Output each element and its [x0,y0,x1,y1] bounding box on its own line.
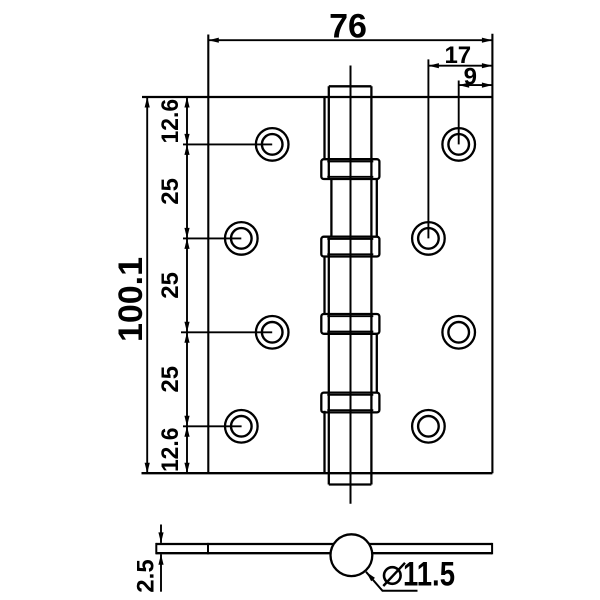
ext line row4 [183,425,242,427]
arrow seg r4 down [184,426,189,437]
arrow 2.5 up [158,554,163,565]
arrow seg r4 up [184,416,189,427]
dim line 76 [208,39,492,41]
ext line row1 [183,143,272,145]
barrel top cap [329,85,372,87]
arrow 9 right [482,83,493,88]
arrow seg r2 down [184,238,189,249]
bearing band 3 [321,314,379,334]
svg-text:12.6: 12.6 [157,99,184,144]
barrel right inner line [370,86,372,484]
hole row3 right [442,316,475,349]
arrow 17 right [482,63,493,68]
plate left edge [207,35,209,474]
dim line 17 [428,65,492,67]
ext line 17 [427,59,429,238]
side view bar top [156,543,492,545]
arrow seg r1 down [184,144,189,155]
plate top edge [142,96,492,98]
plate bottom edge [142,472,493,474]
arrow seg bottom [184,463,189,474]
dim 2.5 upper [160,525,162,543]
leader line dia [366,572,418,591]
hole row1 left [256,128,289,161]
side view bar bottom [156,552,492,554]
side bar joint tick [207,543,209,554]
barrel bottom cap [329,483,372,485]
dim line 100.1 [146,97,148,473]
barrel left inner line K2 [330,179,332,237]
dim 2.5 lower [160,554,162,591]
barrel left inner line K1 [328,86,330,179]
svg-text:2.5: 2.5 [133,559,160,592]
arrow leader dia [366,572,375,582]
hole row2 left [225,222,258,255]
side bar left cap [155,543,157,554]
hole row2 right [412,222,445,255]
dim line 9 [459,84,493,86]
bearing band 4 [321,393,379,413]
arrow 76 left [208,38,219,43]
arrow 2.5 down [158,532,163,543]
barrel left outer K3 [323,257,325,314]
ext line 9 [458,81,460,145]
arrow 17 left [428,63,439,68]
arrow seg r3 down [184,332,189,343]
svg-text:11.5: 11.5 [403,555,455,593]
dim line segments [186,97,188,473]
plate right edge [491,34,493,473]
bearing band 2 [321,237,379,257]
arrow seg top [184,97,189,108]
dia symbol ring [384,567,401,584]
arrow 100.1 top [145,97,150,108]
arrow seg r1 up [184,134,189,145]
svg-text:12.6: 12.6 [157,428,184,473]
barrel center line [350,66,352,504]
svg-text:25: 25 [157,178,184,205]
bearing band 1 [321,159,379,179]
svg-text:76: 76 [329,8,367,46]
dia symbol slash [383,563,405,586]
arrow 9 left [459,83,470,88]
ext line row2 [183,237,241,239]
hole row4 right [412,410,445,443]
arrow 76 right [482,38,493,43]
side view barrel circle [331,534,373,576]
barrel right outer K4 [376,333,378,392]
svg-text:25: 25 [157,366,184,393]
side bar right cap [491,543,493,554]
barrel left inner line K3-K5 [328,237,330,485]
barrel left outer K1 [323,97,325,159]
arrow 100.1 bottom [145,463,150,474]
ext line row3 [181,331,272,333]
barrel right outer K2 [376,179,378,237]
hole row1 right [442,128,475,161]
hole row3 left [256,316,289,349]
arrow seg r3 up [184,322,189,333]
hole row4 left [225,410,258,443]
barrel left outer K5 [323,411,325,473]
svg-text:9: 9 [464,63,477,90]
svg-text:25: 25 [157,272,184,299]
svg-text:100.1: 100.1 [112,257,150,342]
arrow seg r2 up [184,228,189,239]
